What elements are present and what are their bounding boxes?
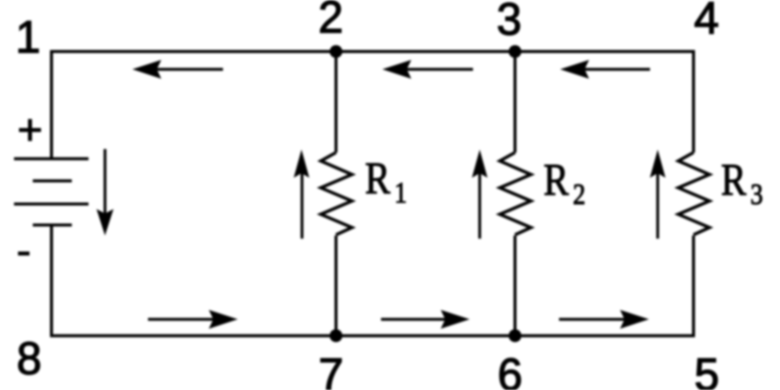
battery polarity minus sign (18, 252, 30, 256)
wire left upper (node 1 to battery +) (50, 50, 53, 159)
node dot 6 (509, 329, 522, 342)
svg-text:3: 3 (497, 0, 522, 45)
svg-text:8: 8 (17, 333, 42, 384)
current arrow top-right (pointing left) (560, 60, 650, 79)
current arrow bottom-middle (pointing right) (381, 310, 470, 329)
svg-text:7: 7 (318, 349, 343, 390)
battery B1 plate long top (+) (14, 157, 89, 160)
battery B1 plate short bottom (-) (33, 224, 72, 227)
svg-text:6: 6 (497, 349, 522, 390)
current arrow top-left (pointing left) (132, 60, 223, 79)
wire left lower (battery - to node 8) (50, 225, 53, 337)
wire R3 to node 5 (692, 236, 695, 338)
current arrow through battery (pointing down) (97, 149, 114, 236)
svg-text:R2: R2 (544, 155, 586, 211)
svg-text:4: 4 (694, 0, 719, 43)
current arrow through R1 (pointing up) (294, 150, 310, 239)
resistor R1 zigzag (321, 153, 352, 235)
wire R2 to node 6 (514, 236, 517, 336)
battery polarity plus sign (19, 119, 41, 141)
svg-text:2: 2 (318, 0, 343, 42)
svg-text:5: 5 (694, 349, 719, 390)
current arrow through R2 (pointing up) (472, 150, 488, 239)
current arrow bottom-right (pointing right) (559, 310, 649, 329)
svg-text:R3: R3 (721, 155, 763, 211)
wire node 2 to R1 (335, 52, 338, 153)
wire R1 to node 7 (335, 236, 338, 336)
battery B1 plate long (14, 203, 89, 206)
node dot 3 (509, 45, 522, 58)
resistor R3 zigzag (678, 153, 709, 235)
current arrow through R3 (pointing up) (650, 150, 666, 239)
node dot 2 (330, 45, 343, 58)
current arrow top-middle (pointing left) (382, 60, 473, 79)
svg-text:1: 1 (15, 11, 40, 62)
wire bottom (node 8 to node 5) (50, 334, 695, 337)
current arrow bottom-left (pointing right) (148, 310, 238, 329)
wire node 3 to R2 (514, 52, 517, 153)
node dot 7 (330, 329, 343, 342)
battery B1 plate short (33, 179, 72, 182)
resistor R2 zigzag (500, 153, 531, 235)
svg-text:R1: R1 (365, 153, 407, 209)
wire top (node 1 to node 4) (50, 50, 695, 53)
wire node 4 to R3 (692, 50, 695, 153)
